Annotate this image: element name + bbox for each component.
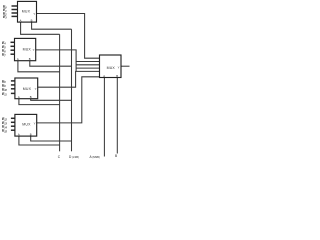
- svg-text:A: A: [20, 18, 22, 22]
- mux U1 input stub I1: [12, 9, 18, 11]
- svg-text:Y: Y: [33, 48, 35, 52]
- svg-text:Y: Y: [118, 65, 120, 69]
- wire U4 output to U5 input4: right, riser up x81.2, into pin: [37, 77, 100, 123]
- mux U2 input stub I5: [11, 45, 15, 47]
- wire U1 B-select down-right forming D bus top: [32, 22, 72, 29]
- svg-text:B: B: [29, 57, 31, 61]
- svg-text:E11: E11: [2, 92, 7, 97]
- mux U2 input stub I6: [11, 49, 15, 51]
- svg-text:B: B: [116, 74, 118, 78]
- mux U3 input stub I9: [11, 84, 15, 86]
- svg-text:Y: Y: [34, 121, 36, 125]
- wire U5 A-select down to label: [103, 78, 105, 157]
- mux U4 input stub I13: [11, 121, 15, 123]
- svg-text:B: B: [115, 154, 117, 158]
- svg-text:MUX: MUX: [23, 87, 32, 91]
- wire U4 A-select to C bus: [19, 136, 60, 145]
- svg-text:MUX: MUX: [22, 9, 31, 13]
- D bus vertical: [71, 29, 73, 151]
- wire U5 output stub: [121, 65, 130, 67]
- mux U1 input stub I3: [12, 15, 18, 17]
- svg-text:B: B: [31, 18, 33, 22]
- wire U1 A-select down-right forming C bus top: [21, 22, 60, 34]
- mux U1 input stub I0: [12, 5, 18, 7]
- svg-text:E3: E3: [3, 15, 7, 20]
- svg-text:MUX: MUX: [107, 66, 116, 70]
- mux U4 input stub I15: [11, 129, 15, 131]
- mux U4 box: [15, 114, 37, 136]
- wire U1 output to U5 input1: right, down riser x84.6, into pin: [37, 14, 100, 59]
- wire U2 B-select to D bus: [30, 61, 72, 66]
- wire U3 output to U5 input3: right, riser up x76, into pin: [38, 71, 100, 87]
- wire U5 B-select down to label: [116, 78, 118, 154]
- svg-text:Y: Y: [35, 87, 37, 91]
- mux U3 input stub I8: [11, 80, 15, 82]
- mux U4 input stub I14: [11, 125, 15, 127]
- mux U2 input stub I7: [11, 53, 15, 55]
- mux U4 input stub I12: [11, 117, 15, 119]
- wire U5 input rail y68.1: [76, 67, 99, 69]
- C bus vertical: [59, 34, 61, 151]
- wire U3 B-select to D bus: [31, 99, 72, 101]
- wire U4 B-select to D bus: [31, 136, 72, 141]
- mux U1 input stub I2: [12, 12, 18, 14]
- svg-text:MUX: MUX: [23, 47, 32, 51]
- svg-text:B: B: [30, 95, 32, 99]
- svg-text:Y: Y: [33, 12, 35, 16]
- svg-text:A: A: [18, 95, 20, 99]
- svg-text:C: C: [58, 155, 61, 159]
- wire select fan spine x76: [75, 62, 77, 72]
- mux U2 box: [15, 38, 36, 60]
- mux U3 input stub I11: [11, 92, 15, 94]
- svg-text:E7: E7: [2, 53, 6, 58]
- mux U1 box: [18, 1, 37, 22]
- svg-text:A: A: [18, 132, 20, 136]
- svg-text:A: A: [103, 74, 105, 78]
- wire U3 A-select to C bus: [19, 99, 60, 105]
- wire U2 A-select to C bus: [18, 61, 60, 72]
- svg-text:A (MSB): A (MSB): [90, 155, 100, 159]
- svg-text:MUX: MUX: [22, 122, 31, 126]
- svg-text:A: A: [17, 57, 19, 61]
- wire U5 input rail y64.8: [76, 64, 99, 66]
- mux U3 box: [15, 78, 38, 99]
- svg-text:D (LSB): D (LSB): [69, 155, 79, 159]
- mux U3 input stub I10: [11, 88, 15, 90]
- mux U5 box: [100, 55, 122, 78]
- svg-text:B: B: [30, 132, 32, 136]
- wire U2 output to U5 input2: [36, 50, 100, 62]
- mux U2 input stub I4: [11, 41, 15, 43]
